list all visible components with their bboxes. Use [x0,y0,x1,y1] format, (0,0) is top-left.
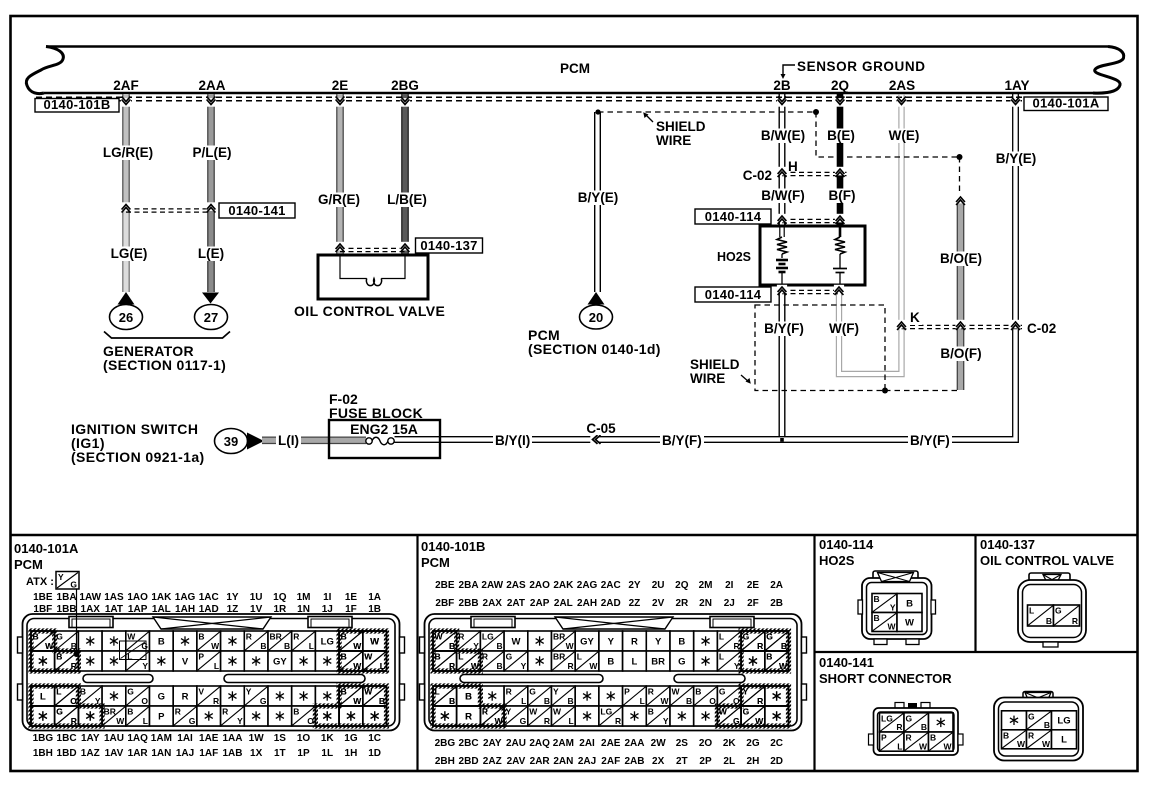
connector 0140-101B key slots [460,675,603,683]
wire label B/Y(F) mid [660,434,704,449]
svg-text:2BF: 2BF [435,598,454,609]
connector 0140-101B cell pin 2AV [504,706,528,726]
svg-text:1AB: 1AB [222,748,242,759]
connector 0140-101A cell pin 1U [244,631,268,651]
svg-text:L: L [458,652,463,662]
wire label B/O(F) [939,347,984,362]
svg-text:V: V [182,656,189,667]
connector 0140-101A cell pin 1AX [78,651,102,671]
wire 2AF: LG/R(E) upper segment [123,94,129,146]
svg-text:P: P [198,652,204,662]
svg-text:2M: 2M [699,580,713,591]
svg-text:2B: 2B [770,598,783,609]
connector 0140-101B cell pin 2N [694,651,718,671]
connector 0140-101A cell pin 1L [315,706,339,726]
arrow out of 39 (right triangle) [247,433,264,450]
connector 0140-101B cell pin 2P [694,706,718,726]
svg-text:1Y: 1Y [226,592,239,603]
wire 2AA: P/L(E) upper segment [208,94,214,146]
connector 0140-101A cell pin 1AM [150,686,174,706]
svg-text:1AM: 1AM [151,733,172,744]
connector 0140-101A cell pin 1AD [197,651,221,671]
svg-text:B: B [678,636,685,647]
svg-text:K: K [910,310,920,325]
connector 0140-101A cell pin 1AR [126,706,150,726]
OCV internal leads [340,255,367,279]
wire label B/W(E) [759,129,807,144]
svg-text:2C: 2C [770,738,783,749]
connector 0140-101A cell pin 1J [315,651,339,671]
svg-text:0140-114: 0140-114 [819,537,874,552]
wire label B/Y(F) in shield box [762,322,806,337]
svg-text:G: G [529,687,536,697]
svg-text:BR: BR [104,707,116,717]
svg-text:B: B [496,661,502,671]
svg-text:2Q: 2Q [675,580,689,591]
svg-text:G: G [719,687,726,697]
connector 0140-101B cell pin 2BG [433,686,457,706]
svg-text:2A: 2A [770,580,783,591]
svg-text:R: R [615,716,621,726]
wire label B/O(E) [938,252,984,267]
svg-text:W: W [495,716,504,726]
svg-text:B: B [33,632,39,642]
svg-text:L: L [719,652,724,662]
connector 0140-101A shell side lugs [18,637,23,653]
svg-text:W: W [905,617,914,628]
svg-text:B: B [449,696,455,706]
connector label box 0140-101A [1024,97,1108,111]
svg-text:SENSOR GROUND: SENSOR GROUND [797,59,926,74]
svg-text:B: B [198,632,204,642]
connector 0140-141 female half [1023,692,1053,703]
HO2S internal left pin lead [779,226,781,237]
connector 0140-101B cell pin 2BD [457,706,481,726]
svg-text:WIRE: WIRE [690,371,725,386]
svg-text:HO2S: HO2S [717,250,751,264]
svg-text:G: G [260,696,267,706]
svg-text:1Z: 1Z [227,604,239,615]
svg-text:2AX: 2AX [483,598,503,609]
joint circle 20 [580,305,613,329]
connector 0140-101B cell pin 2BF [433,651,457,671]
svg-text:B: B [379,696,385,706]
svg-text:0140-101A: 0140-101A [14,541,79,556]
connector 0140-101A cell pin 1P [292,706,316,726]
svg-text:(SECTION 0921-1a): (SECTION 0921-1a) [71,449,205,465]
svg-text:B/Y(E): B/Y(E) [996,151,1037,166]
ATX pointer line and dot [76,589,78,654]
svg-text:1AG: 1AG [175,592,196,603]
connector 0140-101A cell pin 1H [339,706,363,726]
shield wire dashed box (lower) [755,305,885,391]
svg-text:G: G [743,632,750,642]
svg-text:R: R [906,733,912,743]
svg-text:W: W [553,707,562,717]
svg-text:R: R [449,661,455,671]
resistor (right, zigzag) inside HO2S [835,237,845,254]
connector 0140-101B cell pin 2C [765,686,789,706]
svg-text:BR: BR [553,632,565,642]
svg-text:W: W [471,661,480,671]
svg-text:PCM: PCM [14,557,43,572]
svg-text:B/W(F): B/W(F) [761,188,804,203]
shield wire dashed path (upper) [598,111,816,113]
connector 0140-101B connector shell [425,614,802,731]
connector 0140-101A cell pin 1B [363,651,387,671]
svg-text:W: W [672,687,681,697]
svg-text:B(E): B(E) [827,128,855,143]
connector 0140-101A cell pin 1AU [102,686,126,706]
svg-text:R: R [71,661,77,671]
svg-text:R: R [568,661,574,671]
svg-text:1O: 1O [297,733,311,744]
connector 0140-101B cell pin 2U [646,631,670,651]
connector 0140-101B cell pin 2AX [480,651,504,671]
svg-text:2BC: 2BC [459,738,479,749]
svg-text:2AC: 2AC [601,580,621,591]
svg-text:2J: 2J [724,598,735,609]
svg-text:PCM: PCM [560,61,590,76]
svg-text:W: W [779,661,788,671]
connector 0140-101A cell pin 1BH [31,706,55,726]
wire 1AY: B/Y(E) vertical joining horizontal B/Y run [395,94,1019,442]
svg-text:2AL: 2AL [554,598,573,609]
svg-text:1K: 1K [321,733,335,744]
svg-text:2AV: 2AV [507,756,526,767]
connector 0140-101A cell pin 1C [363,686,387,706]
svg-text:1BE: 1BE [33,592,53,603]
svg-text:Y: Y [246,687,252,697]
svg-text:2Y: 2Y [628,580,641,591]
connector 0140-101B cell pin 2AR [528,706,552,726]
svg-text:Y: Y [608,636,615,647]
svg-text:2AN: 2AN [553,756,573,767]
svg-text:BR: BR [651,656,665,667]
connector 0140-101B cell pin 2AB [623,706,647,726]
svg-text:2AI: 2AI [579,738,595,749]
connector 0140-101B cell pin 2R [670,651,694,671]
svg-text:2AW: 2AW [481,580,503,591]
svg-text:B: B [127,707,133,717]
connector label box 0140-101B [35,99,119,113]
svg-text:L: L [56,687,61,697]
svg-text:1AZ: 1AZ [81,748,100,759]
wire label L(E) [196,247,226,262]
connector 0140-101B cell pin 2BC [457,686,481,706]
svg-text:2AH: 2AH [577,598,597,609]
svg-text:2BG: 2BG [435,738,456,749]
connector 0140-101A cell pin 1AF [197,706,221,726]
connector 0140-101B cell pin 2BE [433,631,457,651]
svg-text:B/Y(E): B/Y(E) [578,190,619,205]
svg-text:1T: 1T [274,748,286,759]
svg-text:W: W [116,716,125,726]
svg-text:Y: Y [237,716,243,726]
svg-text:2AG: 2AG [577,580,598,591]
svg-text:W: W [719,707,728,717]
connector 0140-101A cell pin 1W [244,686,268,706]
svg-text:1H: 1H [345,748,358,759]
svg-text:1AP: 1AP [128,604,148,615]
connector 0140-101A cell pin 1AG [173,631,197,651]
svg-text:2AQ: 2AQ [529,738,550,749]
connector 0140-101B cell pin 2AF [599,706,623,726]
node: shield junction dot C [957,154,963,160]
connector 0140-101A cell pin 1AC [197,631,221,651]
connector 0140-101B shell top tab right [710,617,754,628]
svg-text:2AD: 2AD [601,598,621,609]
wire label L(I) [276,434,301,449]
connector 0140-101B shell side lugs [420,637,425,653]
connector 0140-101B cell pin 2B [765,651,789,671]
connector 0140-101B cell pin 2AT [504,651,528,671]
svg-text:B: B [930,733,936,743]
joint circle 39 [215,429,248,454]
svg-text:B/Y(F): B/Y(F) [764,321,804,336]
oil control valve box [318,255,428,299]
svg-text:LG/R(E): LG/R(E) [103,145,153,160]
svg-text:2E: 2E [332,78,349,93]
svg-text:R: R [757,696,763,706]
svg-text:W: W [755,716,764,726]
svg-text:R: R [482,707,488,717]
svg-text:L/B(E): L/B(E) [387,192,427,207]
svg-text:G: G [70,580,77,590]
connector 0140-101A shell top tab left [69,617,113,628]
connector 0140-101A cell pin 1AN [150,706,174,726]
svg-text:W(E): W(E) [889,128,920,143]
connector 0140-101A cell pin 1V [244,651,268,671]
svg-text:1AQ: 1AQ [127,733,148,744]
svg-text:W: W [45,641,54,651]
svg-text:W: W [370,636,379,647]
connector 0140-101B cell pin 2D [765,706,789,726]
svg-text:2P: 2P [699,756,712,767]
svg-text:P: P [624,687,630,697]
svg-text:R: R [1028,730,1034,740]
svg-text:L: L [435,687,440,697]
svg-text:1BC: 1BC [57,733,77,744]
svg-text:W: W [660,696,669,706]
svg-text:2V: 2V [652,598,665,609]
connector 0140-101A cell pin 1BD [55,706,79,726]
svg-text:G: G [158,691,165,702]
connector 0140-101B cell pin 2M [694,631,718,651]
connector 0140-101A shell top bowtie [153,617,271,629]
connector 0140-101B cell pin 2X [646,706,670,726]
svg-text:W: W [435,632,444,642]
connector 0140-101B cell pin 2Q [670,631,694,651]
svg-text:B: B [1044,720,1050,730]
connector 0140-101A cell pin 1AT [102,651,126,671]
connector 0140-101A cell pin 1BC [55,686,79,706]
connector 0140-101B cell pin 2H [741,706,765,726]
svg-text:B/Y(I): B/Y(I) [495,433,530,448]
svg-text:Y: Y [553,687,559,697]
connector crossing 0140-114 (top) [782,218,840,220]
svg-text:B: B [465,691,472,702]
svg-text:2F: 2F [747,598,759,609]
svg-text:G: G [766,632,773,642]
svg-text:1D: 1D [368,748,381,759]
svg-text:2R: 2R [675,598,689,609]
SHIELD WIRE label (upper) with arrow [645,114,653,122]
svg-text:L: L [640,696,645,706]
svg-text:L: L [632,656,638,667]
svg-text:HO2S: HO2S [819,553,855,568]
connector 0140-101B cell pin 2AP [528,651,552,671]
wire 2B: B/W(E)/B/W(F)/B/Y(F) vertical [778,94,780,226]
svg-text:1BG: 1BG [33,733,54,744]
connector 0140-101B cell pin 2AW [480,631,504,651]
svg-text:1BB: 1BB [57,604,77,615]
svg-text:1AW: 1AW [79,592,101,603]
connector 0140-101B cell pin 2AD [599,651,623,671]
svg-text:B: B [293,707,299,717]
connector 0140-101A cell pin 1AP [126,651,150,671]
svg-text:2AZ: 2AZ [483,756,502,767]
svg-text:B: B [496,641,502,651]
svg-text:0140-114: 0140-114 [705,209,762,224]
svg-text:OIL CONTROL VALVE: OIL CONTROL VALVE [980,553,1114,568]
svg-text:SHIELD: SHIELD [656,119,706,134]
connector 0140-101A cell pin 1AE [197,686,221,706]
connector 0140-101B cell pin 2AU [504,686,528,706]
svg-text:0140-101B: 0140-101B [421,539,485,554]
wire 2AF: LG(E) lower segment [123,211,129,292]
svg-text:W: W [887,622,896,632]
connector 0140-101B cell pin 2AS [504,631,528,651]
svg-text:G: G [506,652,513,662]
connector 0140-101A cell pin 1BA [55,631,79,651]
connector 0140-101B cell pin 2AA [623,686,647,706]
svg-text:1F: 1F [345,604,357,615]
connector 0140-101B cell pin 2BB [457,651,481,671]
connector 0140-101B cell pin 2J [717,651,741,671]
sensor cell plates inside HO2S [839,254,841,268]
wire label W(E) [887,129,922,144]
connector 0140-101B hatched shield bands [433,631,480,671]
wire 2E: G/R(E) [337,94,343,255]
svg-text:2B: 2B [773,78,791,93]
svg-text:0140-101B: 0140-101B [43,97,110,112]
svg-text:R: R [246,632,252,642]
svg-text:ATX :: ATX : [26,576,54,588]
svg-text:2BG: 2BG [391,78,419,93]
0140-141 female cells [1002,711,1027,730]
connector 0140-101B cell pin 2A [765,631,789,651]
svg-text:2AP: 2AP [530,598,550,609]
svg-text:W: W [364,687,373,697]
svg-text:GY: GY [273,656,287,667]
svg-text:G: G [1055,606,1062,616]
svg-text:2AA: 2AA [198,78,225,93]
PCM connector separation dashed line [36,96,1022,98]
svg-text:2AF: 2AF [113,78,139,93]
svg-text:B: B [284,641,290,651]
svg-text:LG: LG [321,636,334,647]
svg-text:L: L [40,691,46,702]
joint circle 27 [195,305,228,330]
svg-text:2AM: 2AM [553,738,574,749]
svg-text:R: R [757,641,763,651]
svg-text:SHORT CONNECTOR: SHORT CONNECTOR [819,671,952,686]
svg-text:B: B [435,652,441,662]
connector 0140-101A cell pin 1S [268,686,292,706]
svg-text:B: B [766,652,772,662]
C-05 crossing on B/Y wire [590,434,600,444]
ATX alternate-cell thin box [120,641,147,660]
svg-text:B: B [607,656,614,667]
svg-text:B: B [158,636,165,647]
svg-text:B: B [568,696,574,706]
svg-text:1Q: 1Q [273,592,287,603]
connector 0140-101A cell pin 1BG [31,686,55,706]
heater element bars inside HO2S [776,259,788,262]
connector 0140-101A cell pin 1BE [31,631,55,651]
svg-text:L: L [1029,606,1034,616]
svg-text:W: W [127,632,136,642]
svg-text:G: G [678,656,685,667]
svg-text:W: W [211,641,220,651]
fuse symbol [366,438,372,444]
svg-text:Y: Y [521,661,527,671]
connector 0140-137 drawing [1029,573,1070,585]
connector 0140-101B cell pin 2AQ [528,686,552,706]
svg-text:2AR: 2AR [530,756,551,767]
connector 0140-101A cell pin 1A [363,631,387,651]
wire label P/L(E) [191,146,234,161]
svg-text:B: B [648,707,654,717]
connector 0140-101B cell pin 2S [670,686,694,706]
connector 0140-101A cell pin 1AB [221,706,245,726]
svg-text:L: L [309,641,314,651]
svg-text:B: B [1046,616,1052,626]
connector 0140-101A cell pin 1AJ [173,706,197,726]
svg-text:(SECTION 0140-1d): (SECTION 0140-1d) [528,341,661,357]
connector 0140-101A cell pin 1AZ [78,706,102,726]
svg-text:R: R [71,716,77,726]
svg-text:1AT: 1AT [105,604,123,615]
svg-text:Y: Y [743,687,749,697]
wire label L/B(E) [385,193,429,208]
svg-text:B: B [695,687,701,697]
svg-text:1AN: 1AN [151,748,171,759]
svg-text:W: W [529,707,538,717]
connector 0140-101A cell pin 1X [244,706,268,726]
svg-text:(SECTION 0117-1): (SECTION 0117-1) [103,357,226,373]
svg-text:2AB: 2AB [624,756,644,767]
svg-text:2L: 2L [723,756,735,767]
bottom panel divider lines [10,534,1138,537]
wire 2AS: W(E) vertical [898,94,900,326]
svg-text:2I: 2I [725,580,734,591]
svg-text:B: B [874,594,880,604]
svg-text:W: W [353,641,362,651]
connector 0140-101A cell pin 1AQ [126,686,150,706]
svg-text:1J: 1J [322,604,333,615]
svg-text:2O: 2O [699,738,713,749]
connector 0140-101A cell pin 1Q [268,631,292,651]
connector 0140-101A cell pin 1AS [102,631,126,651]
svg-text:C-02: C-02 [1027,321,1056,336]
svg-text:G: G [189,716,196,726]
svg-text:B: B [341,632,347,642]
svg-text:0140-137: 0140-137 [420,238,477,253]
svg-text:2G: 2G [746,738,760,749]
svg-text:L: L [719,632,724,642]
